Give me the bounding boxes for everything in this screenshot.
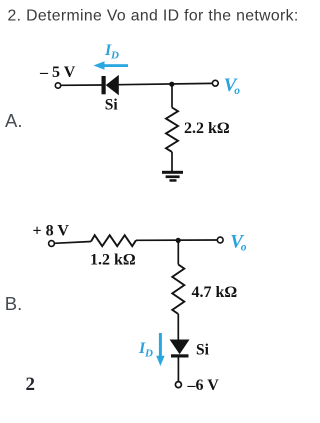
terminal -5V (open circle) [55,83,60,88]
terminal Vo (circuit A, open circle) [212,80,218,86]
svg-text:A.: A. [5,110,22,131]
svg-text:D: D [110,50,119,62]
node B junction dot [176,238,181,243]
svg-text:D: D [144,348,153,360]
wire: resistor R2 to node B and on to Vo terminal [136,239,217,241]
svg-text:o: o [241,242,247,254]
resistor R2 1.2k zigzag (horizontal) [91,235,136,246]
wire: +8V terminal to resistor R2 [54,242,91,244]
terminal -6V (open circle) [175,382,181,388]
node A junction dot [169,82,174,87]
wire: node B down to resistor R3 [177,240,179,264]
diode D2 cathode bar [171,354,189,357]
svg-text:2. Determine Vo and ID for the: 2. Determine Vo and ID for the network: [8,8,299,25]
wire: diode D2 to -6V terminal [177,358,179,382]
current arrow ID pointing left (blue) [94,61,129,70]
wire: node A down to resistor R1 [171,84,173,108]
terminal +8V (open circle) [49,241,55,247]
svg-text:2.2 kΩ: 2.2 kΩ [184,120,230,137]
resistor R1 2.2k zigzag [166,108,178,152]
terminal Vo (circuit B, open circle) [217,237,223,243]
svg-text:– 5 V: – 5 V [39,64,76,81]
svg-text:B.: B. [5,293,22,314]
diode D2 (Si, pointing down): triangle [170,340,190,355]
svg-text:o: o [234,85,240,97]
wire: diode D1 cathode to output node A [119,83,213,84]
svg-text:Si: Si [196,341,210,358]
wire: resistor R1 to ground [171,152,173,172]
wire: resistor R3 to diode D2 [177,314,179,340]
svg-text:+ 8 V: + 8 V [33,223,70,240]
current arrow ID pointing down (blue) [156,333,164,366]
wire: -5V terminal to diode D1 anode-side [61,84,102,86]
diode D1 (Si, pointing left): cathode bar [102,76,106,94]
resistor R3 4.7k zigzag [172,265,184,315]
ground symbol [162,171,183,182]
svg-text:1.2 kΩ: 1.2 kΩ [90,252,136,269]
diode D1 triangle [106,75,119,95]
svg-text:4.7 kΩ: 4.7 kΩ [192,284,238,301]
svg-text:Si: Si [105,97,119,114]
svg-text:–6 V: –6 V [187,377,220,394]
svg-text:2: 2 [26,374,36,395]
